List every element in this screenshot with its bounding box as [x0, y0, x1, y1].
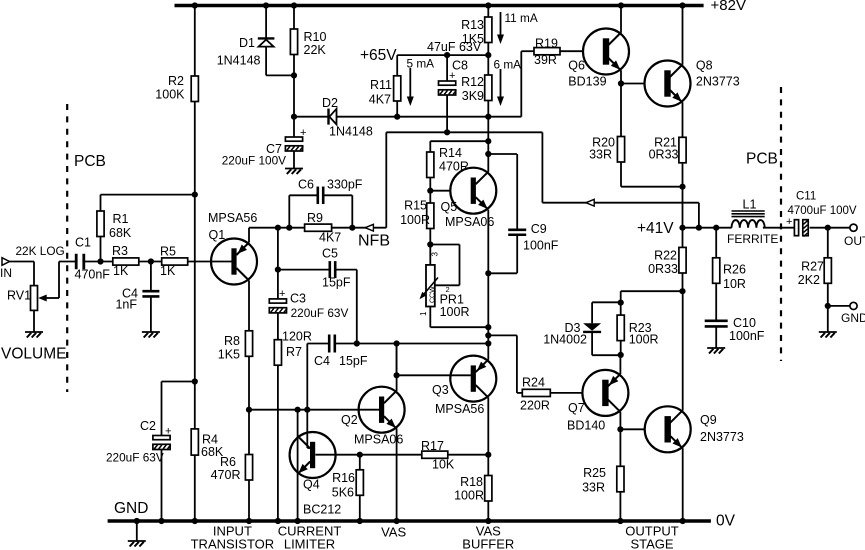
svg-text:100nF: 100nF: [523, 239, 559, 253]
svg-text:R2: R2: [168, 74, 184, 88]
svg-text:R9: R9: [307, 211, 323, 225]
svg-text:STAGE: STAGE: [630, 537, 673, 550]
svg-text:220uF 63V: 220uF 63V: [106, 451, 164, 465]
svg-text:100K: 100K: [155, 88, 185, 102]
svg-text:3K9: 3K9: [462, 89, 484, 103]
svg-text:R27: R27: [801, 260, 824, 274]
svg-text:1K: 1K: [113, 264, 129, 278]
svg-text:R14: R14: [439, 146, 462, 160]
svg-text:C1: C1: [75, 236, 91, 250]
svg-text:R19: R19: [535, 37, 558, 51]
svg-text:L1: L1: [743, 198, 757, 212]
svg-text:Q6: Q6: [568, 59, 585, 73]
svg-text:+: +: [279, 288, 285, 300]
svg-text:2N3773: 2N3773: [700, 430, 744, 444]
svg-text:R12: R12: [461, 75, 484, 89]
svg-text:Q5: Q5: [441, 200, 458, 214]
svg-text:220R: 220R: [520, 399, 550, 413]
svg-text:R15: R15: [404, 199, 427, 213]
svg-text:Q1: Q1: [209, 228, 226, 242]
svg-text:1K5: 1K5: [462, 32, 484, 46]
svg-text:+: +: [449, 70, 455, 82]
svg-text:R26: R26: [723, 263, 746, 277]
svg-text:MPSA56: MPSA56: [208, 211, 257, 225]
svg-text:+: +: [786, 216, 792, 228]
svg-text:R8: R8: [224, 334, 240, 348]
svg-text:1N4148: 1N4148: [329, 125, 373, 139]
svg-text:IN: IN: [0, 266, 12, 280]
svg-text:R7: R7: [286, 345, 302, 359]
svg-text:R24: R24: [522, 376, 545, 390]
svg-text:+82V: +82V: [711, 0, 746, 14]
svg-text:VOLUME: VOLUME: [1, 346, 66, 363]
svg-text:Q3: Q3: [432, 383, 449, 397]
svg-text:PCB: PCB: [74, 153, 106, 170]
svg-text:15pF: 15pF: [322, 276, 351, 290]
svg-text:39R: 39R: [534, 53, 557, 67]
svg-text:R6: R6: [220, 455, 236, 469]
svg-text:2N3773: 2N3773: [696, 74, 740, 88]
svg-text:0R33: 0R33: [648, 262, 678, 276]
svg-text:BC212: BC212: [303, 503, 341, 517]
svg-text:NFB: NFB: [358, 233, 390, 250]
svg-text:Q7: Q7: [568, 401, 585, 415]
svg-text:+41V: +41V: [637, 220, 674, 237]
svg-text:C10: C10: [733, 316, 756, 330]
svg-text:BUFFER: BUFFER: [462, 537, 514, 550]
svg-text:R11: R11: [370, 78, 392, 92]
svg-text:R3: R3: [112, 244, 128, 258]
svg-text:GND: GND: [841, 311, 865, 325]
svg-text:Q8: Q8: [696, 59, 713, 73]
svg-text:TRANSISTOR: TRANSISTOR: [191, 537, 275, 550]
svg-text:D1: D1: [239, 36, 255, 50]
svg-text:FERRITE: FERRITE: [727, 232, 778, 246]
svg-text:1K5: 1K5: [218, 348, 240, 362]
svg-text:5K6: 5K6: [332, 486, 354, 500]
svg-text:4K7: 4K7: [319, 231, 341, 245]
svg-text:BD139: BD139: [568, 74, 606, 88]
svg-text:1N4002: 1N4002: [543, 333, 587, 347]
svg-text:RV1: RV1: [7, 289, 31, 303]
svg-text:GND: GND: [114, 500, 148, 517]
svg-text:22K: 22K: [304, 43, 327, 57]
svg-text:CCW: CCW: [430, 286, 437, 303]
svg-text:MPSA06: MPSA06: [445, 215, 494, 229]
svg-text:68K: 68K: [109, 226, 132, 240]
svg-text:4700uF 100V: 4700uF 100V: [788, 205, 857, 217]
svg-text:R5: R5: [160, 245, 176, 259]
svg-text:R17: R17: [421, 439, 444, 453]
svg-text:OUT: OUT: [844, 234, 865, 248]
svg-text:+: +: [300, 127, 306, 139]
svg-text:R10: R10: [304, 30, 327, 44]
svg-text:10R: 10R: [723, 277, 746, 291]
svg-text:1: 1: [419, 311, 428, 316]
svg-text:100R: 100R: [454, 489, 484, 503]
svg-text:15pF: 15pF: [339, 354, 368, 368]
svg-text:C9: C9: [531, 222, 547, 236]
svg-text:Q9: Q9: [700, 413, 717, 427]
svg-text:R16: R16: [332, 471, 355, 485]
svg-text:PCB: PCB: [746, 151, 778, 168]
svg-text:330pF: 330pF: [327, 178, 363, 192]
svg-text:100R: 100R: [629, 333, 659, 347]
svg-text:LIMITER: LIMITER: [284, 537, 335, 550]
svg-text:4K7: 4K7: [369, 93, 391, 107]
svg-text:C2: C2: [140, 419, 156, 433]
svg-text:C11: C11: [796, 191, 816, 203]
svg-text:C4: C4: [314, 354, 330, 368]
svg-text:1nF: 1nF: [115, 298, 137, 312]
svg-text:R25: R25: [583, 466, 606, 480]
svg-text:R1: R1: [113, 212, 129, 226]
svg-text:BD140: BD140: [567, 419, 605, 433]
svg-text:0R33: 0R33: [649, 148, 679, 162]
svg-text:R18: R18: [460, 475, 483, 489]
svg-text:1N4148: 1N4148: [217, 54, 261, 68]
svg-text:0V: 0V: [716, 513, 736, 530]
svg-text:MPSA56: MPSA56: [435, 402, 484, 416]
svg-text:C5: C5: [322, 247, 338, 261]
svg-text:120R: 120R: [282, 330, 312, 344]
svg-text:+65V: +65V: [360, 47, 397, 64]
svg-text:R22: R22: [654, 249, 677, 263]
svg-text:33R: 33R: [589, 148, 612, 162]
svg-text:1K: 1K: [160, 264, 176, 278]
svg-text:6 mA: 6 mA: [494, 58, 522, 72]
svg-text:2: 2: [446, 285, 450, 294]
svg-text:100R: 100R: [400, 213, 430, 227]
svg-text:Q4: Q4: [303, 478, 320, 492]
svg-text:C3: C3: [290, 292, 306, 306]
svg-text:22K LOG: 22K LOG: [16, 244, 65, 258]
svg-text:VAS: VAS: [381, 525, 406, 540]
svg-text:C6: C6: [298, 178, 314, 192]
svg-text:+: +: [165, 426, 171, 438]
svg-text:D2: D2: [322, 96, 338, 110]
svg-text:10K: 10K: [432, 458, 455, 472]
svg-text:100nF: 100nF: [729, 329, 765, 343]
svg-text:470nF: 470nF: [75, 268, 111, 282]
svg-text:220uF 100V: 220uF 100V: [222, 154, 286, 168]
svg-text:Q2: Q2: [341, 413, 358, 427]
svg-text:R13: R13: [461, 18, 484, 32]
svg-text:3: 3: [431, 252, 440, 257]
svg-text:33R: 33R: [582, 481, 605, 495]
svg-text:2K2: 2K2: [798, 273, 820, 287]
svg-text:220uF 63V: 220uF 63V: [291, 306, 349, 320]
svg-text:11 mA: 11 mA: [505, 11, 538, 25]
svg-text:470R: 470R: [211, 468, 241, 482]
svg-text:100R: 100R: [440, 305, 470, 319]
